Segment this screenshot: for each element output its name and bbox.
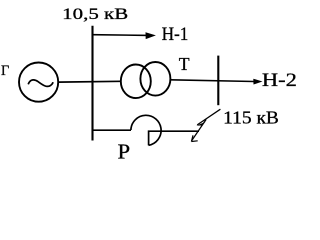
svg-text:10,5 кВ: 10,5 кВ [62, 6, 128, 23]
svg-text:Г: Г [1, 63, 9, 79]
svg-text:Т: Т [179, 54, 190, 74]
svg-text:Н-2: Н-2 [262, 70, 297, 91]
svg-text:115 кВ: 115 кВ [223, 107, 279, 127]
svg-text:Р: Р [118, 139, 131, 163]
svg-text:Н-1: Н-1 [162, 25, 189, 45]
